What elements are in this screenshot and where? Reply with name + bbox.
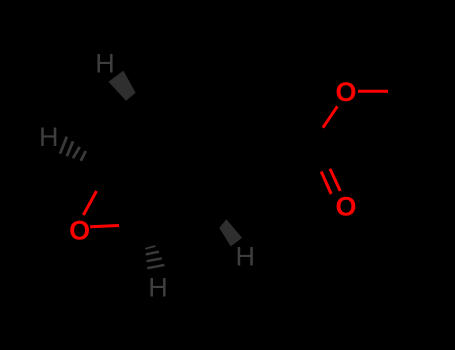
wire: C=O double bond line 2	[330, 169, 340, 191]
wedge bond (top C to H, solid)	[109, 71, 136, 101]
wire: ester O to carbonyl carbon (red half-bond)	[323, 106, 338, 127]
wire: epoxide O to right ring carbon (red half-bond)	[90, 226, 119, 227]
svg-text:H: H	[235, 242, 255, 272]
svg-text:H: H	[148, 273, 168, 303]
svg-text:H: H	[95, 49, 115, 79]
wedge bond (right C to H, solid)	[219, 219, 242, 246]
wire: epoxide O to upper ring carbon (red half-bond)	[83, 191, 96, 215]
svg-text:H: H	[39, 122, 59, 152]
wire: ester O to methyl carbon (red half-bond)	[358, 90, 388, 93]
hash bond (bottom C to H, dashed stereo)	[145, 246, 164, 268]
svg-text:O: O	[335, 191, 356, 221]
wire: C=O double bond line 1	[321, 172, 331, 195]
svg-text:O: O	[69, 216, 90, 246]
svg-text:O: O	[335, 77, 356, 107]
hash bond (left C to H, dashed stereo)	[60, 137, 86, 161]
